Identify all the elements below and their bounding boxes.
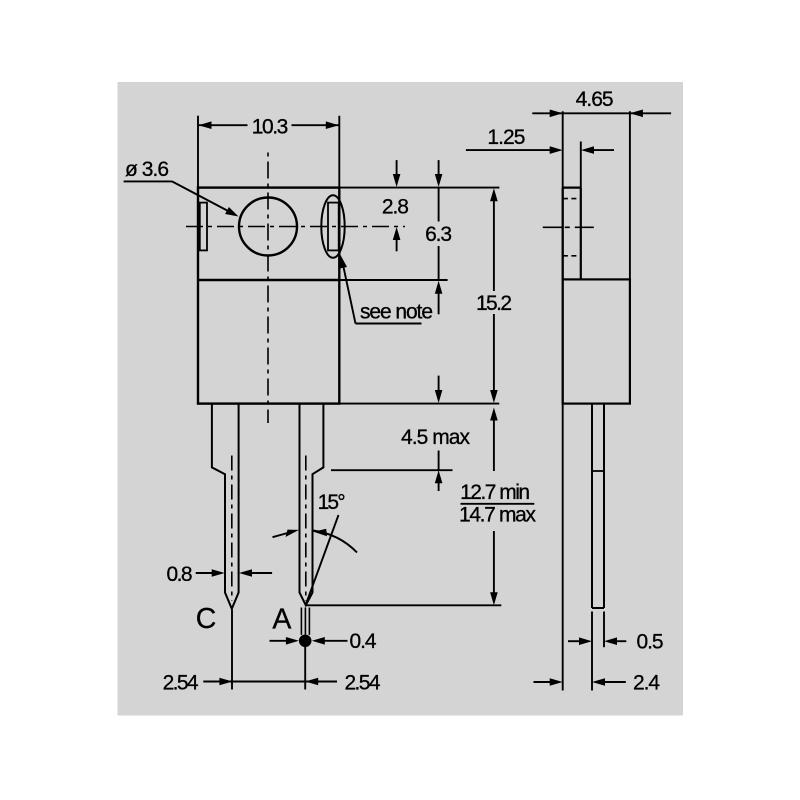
- 12.7 dim line lower: [493, 531, 495, 593]
- svg-text:1.25: 1.25: [487, 126, 525, 149]
- lead C centerline: [231, 456, 233, 602]
- svg-text:2.8: 2.8: [382, 196, 409, 219]
- svg-text:ø 3.6: ø 3.6: [125, 158, 169, 181]
- svg-text:see note: see note: [360, 301, 433, 324]
- long extension tab front face: [562, 111, 564, 690]
- extension below C lead tip: [231, 610, 233, 690]
- 2.8 bottom arrow tail: [396, 240, 398, 252]
- fraction bar 12.7/14.7: [461, 503, 535, 505]
- 6.3 inner line upper: [438, 188, 440, 222]
- arrow 2.54 right: [305, 678, 318, 686]
- side lead right edge: [603, 404, 605, 608]
- 4.65 dim line: [532, 112, 671, 114]
- extension below anode dot: [304, 647, 306, 690]
- arrow 4.65 right: [630, 110, 643, 118]
- arrow 15.2 bottom: [490, 390, 498, 403]
- side lead right extension: [603, 612, 605, 648]
- lead C outline: [212, 404, 239, 609]
- arrow 2.8 top: [393, 174, 401, 187]
- arrow 12.7 top: [490, 408, 498, 421]
- 15.2 dim line upper: [493, 200, 495, 292]
- side tab front face: [562, 188, 564, 280]
- arrow 0.5 right: [604, 637, 617, 645]
- side lead bottom: [592, 607, 604, 609]
- svg-text:0.8: 0.8: [167, 563, 193, 586]
- body vertical centerline: [267, 149, 269, 423]
- see note leader: [342, 260, 356, 324]
- 6.3 top arrow tail: [438, 160, 440, 175]
- tab bottom extension to right: [339, 279, 447, 281]
- 0.8 left arrow tail: [196, 572, 213, 574]
- svg-text:4.65: 4.65: [576, 88, 614, 111]
- extension line 10.3 right: [338, 116, 340, 187]
- side lead left extension: [591, 612, 593, 691]
- svg-text:6.3: 6.3: [425, 223, 452, 246]
- tab/body divider: [198, 279, 339, 281]
- arrow angle right: [314, 529, 328, 537]
- svg-text:4.5 max: 4.5 max: [401, 426, 471, 449]
- 12.7 dim line upper: [493, 421, 495, 472]
- 4.5max bottom arrow tail: [438, 483, 440, 491]
- arrow 15.2 top: [490, 188, 498, 201]
- arrow 1.25 right: [581, 146, 594, 154]
- lead step extension line: [331, 469, 453, 471]
- 0.5 right tail: [617, 640, 627, 642]
- side lead tick: [592, 470, 604, 472]
- arrow 0.5 left: [579, 637, 592, 645]
- 0.5 left tail: [568, 640, 580, 642]
- svg-text:15°: 15°: [318, 491, 346, 514]
- angle left arrow tail: [273, 533, 288, 537]
- lead tip plane line: [306, 604, 502, 606]
- hole horizontal centerline: [186, 226, 405, 228]
- svg-text:A: A: [272, 604, 291, 636]
- side tab rear face: [580, 188, 582, 280]
- leader line for hole label: [124, 180, 172, 182]
- arrow 0.4 left: [286, 637, 299, 645]
- 15 deg arc: [313, 531, 357, 553]
- svg-text:C: C: [196, 603, 217, 635]
- extension line 10.3 left: [197, 116, 199, 187]
- side view centerline: [543, 226, 597, 228]
- body bottom extension to right: [339, 403, 499, 405]
- side body rect: [563, 279, 630, 403]
- 4.65 right extension: [629, 111, 631, 279]
- 6.3 bottom arrow tail: [438, 294, 440, 315]
- arrow 2.54 left: [219, 678, 232, 686]
- svg-text:10.3: 10.3: [252, 115, 289, 138]
- 4.5max top arrow tail: [438, 376, 440, 391]
- arrow 2.4 right: [592, 678, 605, 686]
- 4.5max connector to step line: [438, 451, 440, 470]
- arrow 10.3 right: [326, 121, 339, 129]
- tab rear face extension up: [580, 142, 582, 188]
- 15 deg slant line: [306, 515, 339, 605]
- 2.54 dimension line: [203, 681, 337, 683]
- arrow hole leader: [225, 207, 238, 217]
- 1.25 dim line left: [466, 149, 550, 151]
- arrow 4.5max bottom: [435, 470, 443, 483]
- side hole lower line: [563, 255, 581, 257]
- left slot rect: [200, 203, 207, 251]
- arrow 4.65 left: [550, 110, 563, 118]
- arrow see-note: [339, 255, 347, 269]
- arrow 2.4 left: [550, 678, 563, 686]
- svg-text:14.7 max: 14.7 max: [459, 503, 537, 526]
- 2.8 top arrow tail: [396, 160, 398, 175]
- anode dot: [299, 635, 312, 648]
- 2.4 right tail: [605, 681, 626, 683]
- svg-text:0.5: 0.5: [637, 630, 664, 653]
- arrow 12.7 bottom: [490, 592, 498, 605]
- arrow 4.5max top: [435, 390, 443, 403]
- arrow 10.3 left: [199, 121, 212, 129]
- svg-text:2.4: 2.4: [633, 672, 660, 695]
- arrow 1.25 left: [550, 146, 563, 154]
- tab top extension to right: [339, 187, 499, 189]
- 15.2 dim line lower: [493, 314, 495, 391]
- package outline rect: [198, 188, 339, 404]
- crimp line mid: [304, 608, 306, 635]
- arrow 6.3 bottom: [435, 281, 443, 294]
- 1.25 dim line right tail: [594, 149, 614, 151]
- 0.4 left arrow tail: [270, 640, 288, 642]
- 0.4 right arrow tail: [324, 640, 348, 642]
- svg-text:15.2: 15.2: [476, 292, 512, 315]
- notch inner rect: [328, 203, 339, 251]
- svg-text:2.54: 2.54: [345, 671, 381, 694]
- crimp line right: [308, 608, 310, 635]
- 0.8 right arrow tail: [252, 572, 272, 574]
- arrow 0.8 right: [239, 569, 252, 577]
- dimension line 10.3 right segment: [292, 124, 340, 126]
- svg-text:2.54: 2.54: [163, 671, 199, 694]
- svg-text:0.4: 0.4: [350, 630, 377, 653]
- side lead left edge: [591, 404, 593, 608]
- dimension line 10.3 left segment: [198, 124, 248, 126]
- crimp line left: [300, 608, 302, 635]
- arrow 0.4 right: [312, 637, 325, 645]
- 2.4 left tail: [534, 681, 551, 683]
- lead A centerline: [305, 456, 307, 602]
- arrow 0.8 left: [212, 569, 225, 577]
- lead A outline: [300, 404, 324, 606]
- side hole upper line: [563, 198, 581, 200]
- notch ellipse: [321, 195, 344, 258]
- side tab top edge: [563, 187, 581, 189]
- mounting hole circle: [239, 198, 297, 256]
- arrow 2.8 bottom: [393, 227, 401, 240]
- 6.3 inner line lower: [438, 246, 440, 280]
- svg-text:12.7 min: 12.7 min: [460, 481, 530, 504]
- arrow angle left: [286, 530, 300, 537]
- arrow 6.3 top: [435, 174, 443, 187]
- gray drawing panel: [118, 82, 684, 716]
